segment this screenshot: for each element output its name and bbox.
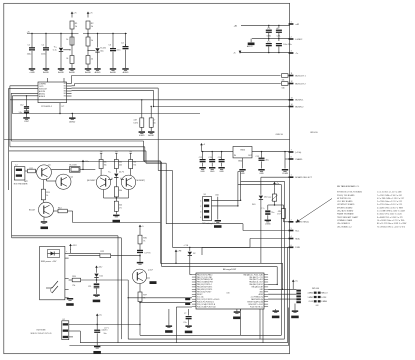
ground: [185, 325, 191, 327]
resistor R2: [86, 21, 90, 29]
svg-text:BUSIN 2: BUSIN 2: [295, 106, 304, 108]
wire - pullup R7 drop: [141, 99, 142, 100]
svg-text:C.?+: C.?+: [261, 208, 265, 210]
svg-text:BUSOUT 2: BUSOUT 2: [295, 83, 306, 85]
svg-text:R14: R14: [58, 208, 61, 210]
svg-text:C11: C11: [88, 286, 91, 288]
svg-text:J.2: J.2: [15, 164, 18, 166]
wire - BUSIN 1 net: [10, 99, 290, 101]
pin: [192, 301, 196, 303]
svg-text:2k: 2k: [66, 58, 68, 60]
wire - codec net R1 staircase: [72, 87, 159, 89]
ground: [292, 310, 298, 312]
svg-text:SDA: SDA: [295, 237, 300, 240]
resistor R3: [70, 37, 74, 45]
svg-text:75k: 75k: [72, 285, 75, 287]
resistor R23: [69, 279, 73, 281]
svg-text:7k: 7k: [143, 241, 145, 243]
wire: [45, 34, 47, 47]
ground: [69, 68, 75, 70]
svg-text:7: 7: [291, 150, 292, 152]
svg-text:BUSOUT 1: BUSOUT 1: [295, 75, 306, 77]
power +7v arrow: [274, 183, 276, 188]
svg-text:10 = 10342 OHm = 3.71 V = 7BG: 10 = 10342 OHm = 3.71 V = 7BG: [377, 220, 405, 222]
svg-text:U30: U30: [226, 293, 229, 295]
annotation arrow: [298, 199, 333, 222]
power +5v arrow: [292, 281, 294, 286]
svg-text:VCC 10k: VCC 10k: [197, 296, 204, 298]
svg-text:PB1 (T1) CLKO PB1: PB1 (T1) CLKO PB1: [197, 277, 212, 279]
svg-text:6.07k: 6.07k: [134, 123, 138, 125]
svg-text:LCRK: LCRK: [322, 297, 328, 299]
svg-text:C1? T6: C1? T6: [144, 253, 150, 255]
connector J3 pads: [296, 290, 301, 292]
wire: [268, 283, 277, 285]
ground: [215, 220, 221, 222]
ground: [85, 68, 91, 70]
svg-text:AGND: AGND: [110, 71, 116, 74]
wire - section outline: [12, 161, 145, 163]
svg-text:R22: R22: [101, 251, 104, 253]
wire LGND2 net: [252, 38, 290, 40]
svg-text:2: 2: [291, 219, 292, 221]
wire: [268, 293, 296, 295]
ground: [258, 169, 264, 171]
svg-text:1: 1: [291, 22, 292, 24]
capacitor C12: [202, 151, 203, 152]
wire - bottom bus 2: [128, 338, 284, 340]
resistor R31: [139, 284, 141, 293]
wire: [217, 197, 219, 220]
svg-text:LIV-2 BFX BOARD: LIV-2 BFX BOARD: [337, 200, 353, 203]
svg-text:PB5 (MOSI) PCINT5: PB5 (MOSI) PCINT5: [197, 287, 212, 289]
capacitor C6: [268, 25, 270, 27]
transistor Q3: [39, 202, 54, 217]
svg-text:R3?: R3?: [143, 295, 146, 297]
ground: [43, 217, 45, 221]
wire - BUSIN 2 net: [154, 106, 290, 108]
connector pin GND: [289, 158, 294, 160]
svg-text:AGND: AGND: [58, 71, 64, 74]
wire - top section divider: [4, 139, 290, 141]
wire - net at 113.5: [12, 113, 200, 115]
svg-text:10k: 10k: [153, 123, 156, 125]
svg-text:2: 2: [200, 206, 201, 208]
svg-text:PB4 (SS) PCINT4.4: PB4 (SS) PCINT4.4: [197, 284, 212, 286]
capacitor C17: [94, 283, 100, 285]
svg-text:+5v: +5v: [129, 151, 132, 153]
resistor R13: [42, 180, 44, 189]
wire - xtal drop: [175, 307, 177, 343]
svg-text:DI? birthing 4.2: DI? birthing 4.2: [202, 222, 215, 225]
wire - channel A rail: [27, 33, 79, 35]
svg-text:-7v: -7v: [233, 52, 236, 54]
wire - staircase L3: [11, 140, 143, 142]
ground: [239, 309, 241, 311]
voltage regulator U2 7805: [233, 147, 252, 158]
wire: [97, 34, 99, 47]
svg-text:ATmega163P: ATmega163P: [223, 268, 237, 271]
pin: [264, 288, 268, 290]
svg-text:A&NT2: A&NT2: [247, 45, 253, 48]
svg-text:6 = 6222 OH = 3.241 V = 2u/6: 6 = 6222 OH = 3.241 V = 2u/6: [377, 214, 402, 216]
ground: [242, 158, 244, 169]
pin: [192, 276, 196, 278]
pin: [264, 303, 268, 305]
wire +5v rail: [201, 149, 203, 152]
svg-text:ULTIMTE/LT BOARD: ULTIMTE/LT BOARD: [337, 203, 355, 206]
svg-text:56k: 56k: [133, 162, 136, 164]
capacitor C5 pair: [26, 96, 28, 106]
pin: [192, 296, 196, 298]
svg-text:30k: 30k: [119, 190, 122, 192]
transistor Q4: [96, 175, 110, 189]
resistor R9: [282, 74, 289, 78]
wire - bottom bus 1: [140, 334, 281, 336]
wire: [261, 176, 290, 178]
svg-text:+4v: +4v: [27, 32, 30, 34]
ground: [110, 68, 116, 70]
connector J2 EGI trigger: [14, 167, 25, 180]
svg-text:3 = 2750 OHm = 2.05 V = 2.25: 3 = 2750 OHm = 2.05 V = 2.25: [377, 204, 402, 206]
ground: [199, 167, 205, 169]
svg-text:4.2 = TBS OHM = 1.135 V = 2.37: 4.2 = TBS OHM = 1.135 V = 2.37: [377, 198, 404, 200]
pin: [65, 257, 69, 259]
svg-text:40.7%: 40.7%: [119, 171, 124, 173]
IC U1 codec: [38, 82, 67, 103]
svg-text:D2: D2: [193, 253, 195, 255]
svg-text:4: 4: [291, 236, 292, 238]
SMPS module PS1: [40, 246, 65, 299]
ground: [148, 131, 154, 133]
DIP switch S1: [203, 197, 212, 221]
diode D2: [97, 46, 99, 48]
connector pin SDA: [289, 238, 294, 240]
wire -7v net: [240, 52, 290, 54]
svg-text:8: 8: [291, 157, 292, 159]
svg-text:GN1: GN1: [260, 289, 263, 291]
diode D3: [100, 169, 102, 176]
wire: [60, 34, 62, 47]
wire - bottom bus 4 vertical: [288, 308, 290, 346]
diode D1: [60, 46, 62, 47]
power feed +7v channel B: [87, 13, 89, 18]
power +12v arrow: [82, 161, 84, 166]
diode D10: [260, 177, 262, 195]
wire: [125, 34, 127, 47]
pin: [264, 276, 268, 278]
svg-text:+5.0 PWM24 (%): +5.0 PWM24 (%): [250, 296, 263, 298]
ground: [94, 346, 100, 348]
ground: [273, 310, 279, 312]
svg-text:+10u: +10u: [116, 50, 121, 52]
svg-text:SMF power +15V: SMF power +15V: [41, 261, 57, 263]
svg-text:1%: 1%: [119, 208, 122, 210]
capacitor C15: [261, 151, 262, 152]
svg-text:SRS6 XMT1 +24.02: SRS6 XMT1 +24.02: [248, 304, 263, 306]
svg-text:PD7 (OC2) PCINT23 +4.2-B.D: PD7 (OC2) PCINT23 +4.2-B.D: [197, 299, 220, 301]
svg-text:75k: 75k: [133, 165, 136, 167]
svg-text:LIN-2 ALT1 BOARD: LIN-2 ALT1 BOARD: [337, 210, 354, 213]
pin: [264, 293, 268, 295]
pin: [67, 95, 72, 97]
pin: [65, 297, 69, 299]
pin: [192, 274, 196, 276]
pin: [192, 279, 196, 281]
svg-text:C14: C14: [218, 157, 221, 159]
crystal X1: [250, 39, 252, 43]
svg-text:+GND: +GND: [29, 72, 35, 74]
wire - bottom bus 1 vertical: [280, 185, 282, 336]
svg-text:VZIMBALL CHAIN: VZIMBALL CHAIN: [337, 219, 353, 222]
svg-text:PSG%) TGS BOARD: PSG%) TGS BOARD: [337, 194, 355, 197]
transistor Q6: [132, 269, 146, 283]
svg-text:RESET: RESET: [197, 294, 202, 296]
resistor R19: [114, 201, 118, 211]
svg-text:R30: R30: [143, 238, 146, 240]
svg-text:MOSFET): MOSFET): [137, 180, 146, 182]
capacitor C7: [278, 25, 280, 27]
ground: [218, 167, 224, 169]
pin: [192, 306, 196, 308]
wire: [268, 288, 296, 290]
svg-text:AGND: AGND: [69, 120, 75, 123]
ground: [23, 117, 29, 119]
pin: [264, 298, 268, 300]
svg-text:C12: C12: [199, 157, 202, 159]
svg-text:4.MM0: 4.MM0: [308, 293, 314, 295]
svg-text:Q.5L?: Q.5L?: [148, 270, 153, 272]
svg-text:R12: R12: [30, 168, 33, 170]
wire SCL: [243, 230, 290, 232]
wire - section bottom 2: [12, 237, 122, 239]
capacitor C9: [268, 39, 270, 41]
ground: [139, 131, 145, 133]
svg-text:D11: D11: [100, 276, 103, 278]
wire - bottom bus 3 vertical: [287, 247, 289, 342]
capacitor C13: [212, 151, 213, 152]
pin: [192, 286, 196, 288]
svg-text:TIN/22 NEW ART CHART: TIN/22 NEW ART CHART: [337, 216, 359, 219]
svg-text:AGND: AGND: [43, 71, 49, 74]
svg-text:75k: 75k: [104, 165, 107, 167]
svg-text:11: 11: [291, 73, 293, 75]
wire: [108, 179, 112, 181]
pin: [264, 296, 268, 298]
pin: [192, 293, 196, 295]
connector pin BUSIN 1: [289, 99, 294, 101]
svg-text:CUMB: CUMB: [282, 173, 289, 175]
svg-text:14: 14: [291, 104, 293, 106]
connector pin BUSOUT 1: [289, 75, 294, 77]
ground: [122, 68, 128, 70]
wire - dip bus vertical: [237, 172, 239, 206]
svg-text:R33: R33: [72, 276, 75, 278]
power +7 feed to MCU: [175, 251, 177, 256]
svg-text:GND: GND: [238, 161, 243, 163]
pin: [67, 83, 72, 85]
svg-text:PBASE TECHBASE: PBASE TECHBASE: [337, 213, 354, 216]
power +15v arrow small: [96, 267, 98, 272]
svg-text:PB6 (MISO) PCINT6: PB6 (MISO) PCINT6: [197, 289, 212, 291]
svg-text:6: 6: [291, 245, 292, 247]
ground: [209, 167, 215, 169]
wire - MCU drop wire C: [259, 309, 261, 339]
connector pin BOARD SE1: [289, 221, 294, 223]
svg-text:4GND: 4GND: [139, 135, 145, 137]
wire - bottom bus 3: [80, 342, 287, 344]
svg-text:AGND: AGND: [123, 71, 129, 74]
pin: [67, 88, 72, 90]
svg-text:U10: U10: [215, 195, 218, 197]
resistor R14: [54, 210, 59, 212]
svg-text:56k: 56k: [119, 162, 122, 164]
svg-text:AGND: AGND: [69, 71, 75, 74]
connector pin +13v: [289, 151, 294, 153]
schematic border frame: [4, 3, 290, 353]
ground: [29, 68, 35, 70]
svg-text:Q1: Q1: [48, 165, 51, 167]
svg-text:LIN+ BOARD B: LIN+ BOARD B: [337, 222, 351, 225]
ground: [58, 68, 64, 70]
svg-text:GND: GND: [219, 171, 224, 173]
svg-text:Q2: Q2: [71, 177, 74, 179]
svg-text:(C? ): (C? ): [105, 328, 109, 330]
svg-text:C2B?: C2B?: [24, 121, 30, 123]
connector pin 1WB: [289, 247, 294, 249]
svg-text:LGND2: LGND2: [295, 39, 303, 41]
svg-text:TL+: TL+: [108, 171, 111, 173]
power +5v arrow: [201, 145, 203, 150]
ground: [43, 68, 49, 70]
wire: [81, 279, 129, 281]
svg-text:100n 220u: 100n 220u: [283, 44, 292, 46]
svg-text:C15: C15: [256, 156, 259, 158]
ground: [93, 294, 99, 296]
resistor R8: [149, 118, 153, 127]
svg-text:C13: C13: [208, 157, 211, 159]
wire: [69, 324, 140, 326]
svg-text:1WB: 1WB: [295, 247, 300, 249]
svg-text:7 = 1242 OHM = P 40 V = 242: 7 = 1242 OHM = P 40 V = 242: [377, 195, 402, 197]
wire: [127, 280, 129, 339]
svg-text:1k: 1k: [66, 39, 68, 41]
relay RL1: [70, 167, 81, 173]
pin: [264, 279, 268, 281]
svg-text:AGND: AGND: [148, 134, 154, 137]
pin: [192, 291, 196, 293]
ground: [94, 68, 100, 70]
svg-text:PD4 (OC1B) PCINT7.2-B: PD4 (OC1B) PCINT7.2-B: [197, 306, 216, 308]
wire - codec net R2 to busin2: [72, 89, 154, 91]
svg-text:+7M: +7M: [177, 251, 181, 253]
wire: [202, 246, 290, 248]
wire - channel B rail: [83, 33, 127, 35]
resistor R21: [275, 204, 284, 206]
wire SDA: [250, 238, 290, 240]
wire: [96, 320, 98, 330]
svg-text:PB7 (SCK) PCINT7: PB7 (SCK) PCINT7: [197, 292, 211, 294]
svg-text:SFIB CL 1520-07 OUTL.05: SFIB CL 1520-07 OUTL.05: [30, 333, 51, 335]
wire - section bottom: [12, 235, 118, 237]
pin: [264, 283, 268, 285]
svg-text:1: 1: [291, 175, 292, 177]
pin: [67, 90, 72, 92]
pin: [264, 301, 268, 303]
svg-text:100u: 100u: [27, 54, 31, 56]
svg-text:13: 13: [291, 97, 293, 99]
power +5v arrow: [96, 315, 98, 320]
resistor R1: [70, 21, 74, 29]
svg-text:C?: C?: [184, 313, 186, 315]
svg-text:LGMD: LGMD: [265, 224, 271, 226]
resistor R10: [282, 82, 289, 86]
svg-text:GND: GND: [210, 171, 215, 173]
svg-text:CLK3: CLK3: [309, 301, 314, 303]
wire: [112, 34, 114, 47]
wire - MCU left net B: [128, 297, 192, 299]
transistor Q1: [37, 165, 52, 180]
pin: [192, 281, 196, 283]
wire: [252, 151, 290, 153]
svg-text:5 = COME OHM = 2.035 V = 24M: 5 = COME OHM = 2.035 V = 24M: [377, 211, 405, 213]
connector pin LGND2: [289, 38, 294, 40]
capacitor C11: [278, 39, 280, 41]
capacitor C3: [112, 46, 114, 48]
svg-text:1 = 2.15 Ohm = 1.21 V = 24M: 1 = 2.15 Ohm = 1.21 V = 24M: [377, 192, 402, 194]
svg-text:10k: 10k: [282, 80, 285, 82]
wire - MCU left labels: [185, 298, 190, 300]
svg-text:B2 = 11.222 OHm = 3.381 V = 7B: B2 = 11.222 OHm = 3.381 V = 7BW: [377, 223, 406, 225]
svg-text:1k: 1k: [91, 40, 93, 42]
svg-text:EDITION8: EDITION8: [37, 330, 46, 332]
svg-text:PC1602F-1: PC1602F-1: [41, 106, 52, 108]
svg-text:2 = 7246 OHm = 2.21 V = 2.22: 2 = 7246 OHm = 2.21 V = 2.22: [377, 201, 402, 203]
pin: [192, 283, 196, 285]
svg-text:AGND: AGND: [85, 71, 91, 74]
wire - MCU drop wire D: [262, 309, 264, 343]
wire: [275, 309, 277, 310]
pin: [65, 288, 69, 290]
capacitor C18: [137, 250, 143, 251]
power +15V arrow: [70, 245, 72, 250]
svg-text:BOARD SEL.ECT: BOARD SEL.ECT: [295, 176, 312, 179]
wire - left bus L1: [10, 85, 38, 87]
capacitor C16 tantalum: [268, 204, 275, 206]
diode D11: [96, 272, 98, 273]
pin: [192, 303, 196, 305]
pin: [67, 85, 72, 87]
switch inside SMPS: [46, 287, 52, 289]
svg-text:24k: 24k: [119, 165, 122, 167]
wire - MCU left net A: [140, 302, 192, 304]
svg-text:T6u: T6u: [271, 212, 274, 214]
capacitor C21: [94, 330, 100, 331]
wire: [71, 252, 100, 254]
wire - left bus L4: [12, 95, 38, 97]
svg-text:C/BL: C/BL: [277, 35, 281, 37]
pin: [192, 298, 196, 300]
ground: [147, 277, 150, 279]
svg-text:A:2: A:2: [277, 27, 280, 30]
svg-text:2k: 2k: [91, 59, 93, 61]
wire +7v2 net: [241, 24, 290, 26]
svg-text:PB0 (XCK/T0) PB0.0: PB0 (XCK/T0) PB0.0: [197, 274, 212, 276]
svg-text:12: 12: [291, 81, 293, 83]
pin: [264, 291, 268, 293]
svg-text:56k: 56k: [104, 162, 107, 164]
svg-text:4: 4: [200, 217, 201, 219]
